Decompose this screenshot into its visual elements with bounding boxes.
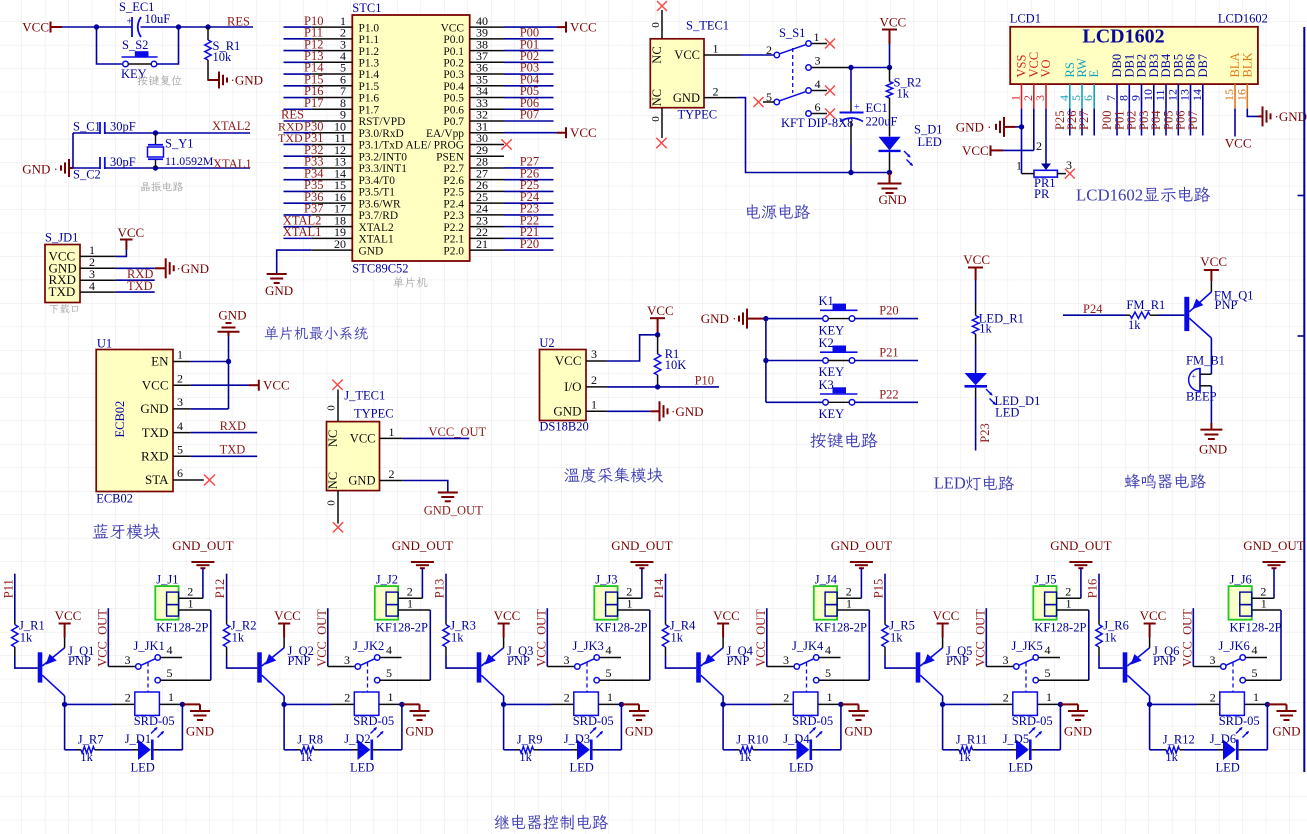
svg-text:NC: NC: [326, 472, 340, 489]
resistor J_R3: [443, 625, 449, 647]
dashed link S_S1: [792, 48, 794, 93]
label J_JK2 designator: [353, 639, 384, 653]
net label P21: [520, 225, 539, 239]
pin name NC bottom (S_TEC1): [650, 89, 664, 106]
label J_R1 value 1k: [20, 630, 33, 644]
pin name VCC (U2): [555, 353, 582, 368]
label J_R11 value 1k: [958, 750, 971, 764]
wire S_R1 to GND: [208, 60, 218, 80]
svg-text:P3.7/RD: P3.7/RD: [359, 210, 399, 222]
dashed link (J_JK5): [1025, 663, 1027, 692]
LED arrows (LED_D1): [986, 389, 996, 405]
svg-text:FM_B1: FM_B1: [1186, 354, 1225, 368]
svg-text:ECB02: ECB02: [96, 492, 133, 506]
title 单片机最小系统: [265, 326, 368, 340]
svg-text:GND_OUT: GND_OUT: [1243, 538, 1304, 553]
svg-text:LED: LED: [1216, 760, 1240, 774]
pin 33 (STC1): [470, 96, 504, 110]
svg-text:1k: 1k: [232, 630, 245, 644]
svg-text:1: 1: [1261, 596, 1267, 610]
pin name VCC (STC1): [441, 22, 464, 34]
LED arrows (J_D3): [590, 727, 603, 738]
svg-text:VCC: VCC: [22, 20, 49, 35]
power port GND (unit 2): [402, 704, 434, 738]
svg-text:SRD-05: SRD-05: [134, 714, 175, 728]
label LCD1 designator: [1010, 12, 1041, 26]
pin 2 (J_J6): [1252, 585, 1274, 599]
wire net P33: [284, 167, 312, 169]
wire LED to junction (unit 3): [593, 749, 622, 751]
net label P16: [1086, 579, 1100, 598]
pin 11 (STC1): [311, 131, 352, 145]
pin 7 (STC1): [311, 84, 352, 98]
pin name P1.1 (STC1): [359, 34, 380, 46]
wire net P20: [504, 249, 554, 251]
pin name DB6 (LCD1): [1184, 54, 1198, 78]
label FM_R1 designator: [1126, 298, 1165, 312]
wire net P25: [504, 190, 554, 192]
svg-text:3: 3: [177, 395, 183, 409]
svg-text:VO: VO: [1039, 59, 1053, 77]
pin 1 (J_J3): [618, 596, 650, 610]
label J_D2 designator: [344, 732, 370, 746]
pin 23 (STC1): [470, 213, 504, 227]
svg-text:U2: U2: [539, 336, 554, 350]
net label P24: [1083, 302, 1103, 316]
svg-text:2: 2: [125, 690, 131, 704]
pin name DB4 (LCD1): [1159, 53, 1173, 77]
node EC1 bottom junction: [848, 170, 853, 175]
switch K3: [820, 387, 858, 405]
svg-text:10uF: 10uF: [145, 12, 171, 26]
pin 19 (STC1): [311, 225, 352, 239]
wire LED_R1 to LED_D1: [975, 334, 977, 373]
svg-text:P2.5: P2.5: [443, 187, 464, 199]
power port VCC (pin31): [557, 125, 597, 140]
net label RXD (STC1): [278, 119, 304, 133]
svg-text:J_R12: J_R12: [1163, 733, 1195, 747]
annotation 下载口: [50, 304, 79, 314]
pin 14 (STC1): [311, 166, 352, 180]
svg-text:2: 2: [1210, 690, 1216, 704]
wire VCC to rail junction: [889, 44, 891, 68]
switch arm (J_JK1): [141, 659, 156, 666]
wire RS/RW/E net 0: [1069, 109, 1071, 136]
power port VCC (U1): [249, 377, 290, 392]
pin name NC top (S_TEC1): [650, 46, 664, 63]
wire P14 vertical: [665, 574, 667, 625]
connector S_TEC1 body: [650, 39, 704, 108]
label J_JK1 designator: [134, 639, 165, 653]
wire collector down (J_Q5): [942, 696, 944, 705]
pin 15 (STC1): [311, 178, 352, 192]
wire J_J6 pin1 to switch: [1280, 610, 1282, 680]
wire S_JD1 pin2 to GND: [116, 267, 155, 269]
svg-text:·GND: ·GND: [177, 261, 210, 276]
svg-text:30pF: 30pF: [110, 120, 136, 134]
power port GND (reset): [208, 72, 263, 89]
wire to relay coil (unit 3): [504, 703, 574, 705]
label S_TEC1 designator: [686, 19, 729, 33]
pin name P3.6/WR (STC1): [359, 198, 401, 210]
wire J_R12 to LED: [1180, 749, 1224, 751]
svg-text:P3.5/T1: P3.5/T1: [359, 187, 396, 199]
svg-text:P0.5: P0.5: [443, 93, 464, 105]
switch S_S2: [122, 51, 158, 67]
pin 36 (STC1): [470, 61, 504, 75]
svg-text:E: E: [1087, 70, 1101, 78]
svg-text:GND_OUT: GND_OUT: [424, 504, 483, 518]
pin name E (LCD1): [1087, 70, 1101, 78]
pin 3 (J_JK6): [1193, 653, 1226, 669]
node EC1 top junction: [848, 65, 853, 70]
label SRD-05 (unit 5): [1012, 714, 1053, 728]
pin 3 (J_JK1): [108, 653, 141, 669]
relay coil J_JK4 SRD-05: [793, 692, 818, 715]
label S_C1 designator: [73, 120, 101, 134]
svg-text:S_S2: S_S2: [122, 38, 148, 52]
svg-text:1k: 1k: [1165, 750, 1178, 764]
node I/O junction: [655, 384, 660, 389]
label K3 designator: [819, 378, 834, 392]
svg-text:J_R8: J_R8: [297, 733, 323, 747]
label LED_D1 designator: [995, 394, 1041, 408]
svg-text:J_D2: J_D2: [344, 732, 370, 746]
pin 1 stub (relay 6): [1244, 690, 1267, 705]
label S_JD1 designator: [45, 231, 78, 245]
switch S_S1 pole 5-4: [774, 88, 811, 105]
label J_D4 value LED: [789, 760, 813, 774]
svg-text:FM_R1: FM_R1: [1126, 298, 1165, 312]
svg-text:KF128-2P: KF128-2P: [1230, 620, 1282, 634]
pin 3 (U1): [173, 395, 191, 409]
pin 18 (STC1): [311, 213, 352, 227]
power port GND (crystal): [22, 159, 73, 177]
net label P00: [520, 26, 539, 40]
power port GND_OUT (J_TEC1): [424, 493, 483, 518]
svg-text:GND: GND: [1199, 442, 1227, 457]
svg-text:GND: GND: [1064, 724, 1092, 739]
svg-text:RES: RES: [227, 15, 250, 29]
pin name P2.0 (STC1): [443, 245, 464, 257]
pin 4 (J_JK4): [814, 643, 841, 660]
pin 25 (STC1): [470, 190, 504, 204]
pin 40 (STC1): [470, 14, 504, 28]
net label P05 (LCD): [1161, 111, 1175, 130]
wire U2 GND: [607, 410, 650, 412]
label EC1 value 220uF: [866, 115, 898, 129]
svg-text:2: 2: [344, 690, 350, 704]
pin name P3.1/TxD (STC1): [359, 140, 404, 152]
net label P37: [304, 202, 323, 216]
pin 3 (S_S1): [806, 54, 851, 71]
pin number 1 (S_S1): [814, 30, 820, 44]
svg-text:1: 1: [388, 690, 394, 704]
svg-text:1: 1: [713, 42, 719, 56]
svg-text:1: 1: [1016, 159, 1022, 173]
label J_Q3 designator: [507, 644, 533, 658]
svg-text:PNP: PNP: [1153, 654, 1176, 668]
wire net P36: [284, 202, 312, 204]
svg-text:P0.7: P0.7: [443, 116, 464, 128]
wire S_JD1 pin4 TXD: [116, 291, 155, 293]
pin 1 (J_TEC1): [380, 425, 403, 439]
svg-text:1: 1: [1046, 690, 1052, 704]
wire VCC to S_EC1: [62, 26, 132, 28]
label KF128-2P (unit 1): [156, 620, 208, 634]
connector S_JD1 body: [45, 245, 80, 303]
svg-text:1: 1: [827, 690, 833, 704]
svg-text:4: 4: [815, 77, 821, 91]
power port VCC (J_Q1): [55, 608, 82, 637]
svg-text:J_J4: J_J4: [815, 572, 838, 586]
pin name P0.3 (STC1): [443, 69, 464, 81]
svg-text:P3.4/T0: P3.4/T0: [359, 175, 396, 187]
dashed link (J_JK2): [367, 663, 369, 692]
svg-text:1: 1: [591, 398, 597, 412]
pin name P1.6 (STC1): [359, 93, 380, 105]
svg-text:TXD: TXD: [127, 279, 153, 293]
node reset-A junction: [94, 24, 99, 29]
wire EN to GND net: [191, 361, 229, 363]
svg-text:P2.3: P2.3: [443, 210, 464, 222]
wire GND_OUT to pin2 (unit 2): [421, 568, 423, 598]
connector J_J2 body: [375, 586, 398, 620]
svg-text:BLK: BLK: [1240, 53, 1254, 78]
switch K2: [820, 346, 858, 364]
power port VCC (reset circuit): [22, 20, 62, 35]
svg-text:4: 4: [386, 643, 392, 657]
pin name DB5 (LCD1): [1171, 54, 1185, 78]
title 按键电路: [810, 432, 877, 448]
svg-text:4: 4: [825, 643, 831, 657]
label J_J4 designator: [815, 572, 838, 586]
net label P22: [879, 387, 898, 401]
connector J_J3 body: [594, 586, 617, 620]
pin 2 (STC1): [311, 26, 352, 40]
power port GND (unit 3): [621, 704, 653, 738]
svg-text:4: 4: [1252, 643, 1258, 657]
label SRD-05 (unit 3): [573, 714, 614, 728]
label J_J1 designator: [156, 572, 178, 586]
wire K2 left: [766, 360, 822, 362]
svg-text:P2.7: P2.7: [443, 163, 464, 175]
relay coil J_JK1 SRD-05: [135, 692, 160, 715]
svg-text:5: 5: [167, 666, 173, 680]
wire net XTAL1 (STC1): [284, 237, 312, 239]
wire net P34: [284, 179, 312, 181]
svg-text:J_D4: J_D4: [783, 732, 810, 746]
pin 1 (U2): [586, 398, 607, 412]
wire VCC to emitter (J_Q1): [64, 638, 66, 648]
svg-text:K2: K2: [819, 336, 834, 350]
title LED灯电路: [934, 474, 1014, 493]
wire VCC pin31: [504, 132, 557, 134]
label S_S2 designator: [122, 38, 148, 52]
LED arrows (S_D1): [904, 151, 913, 166]
pin 4 (J_JK5): [1033, 643, 1060, 660]
label J_D1 designator: [125, 732, 151, 746]
pin 21 (STC1): [470, 237, 504, 251]
net label P12: [304, 37, 323, 51]
svg-text:2: 2: [389, 467, 395, 481]
svg-text:TYPEC: TYPEC: [354, 406, 394, 420]
resistor J_R5: [882, 625, 888, 647]
wire P13 vertical: [445, 574, 447, 625]
pin name P3.4/T0 (STC1): [359, 175, 396, 187]
wire K3 right: [855, 401, 918, 403]
net label VCC_OUT (unit 4): [754, 609, 768, 667]
svg-text:5: 5: [177, 443, 183, 457]
label FM_Q1 designator: [1214, 288, 1254, 302]
svg-text:5: 5: [1252, 666, 1258, 680]
svg-text:PNP: PNP: [68, 654, 91, 668]
wire pin2 to bottom rail: [738, 98, 851, 173]
transistor J_Q3 PNP: [477, 648, 504, 696]
node keys junction 2: [763, 358, 768, 363]
pin name GND (U1): [140, 401, 168, 416]
power port GND_OUT (unit 6): [1243, 538, 1304, 568]
wire collector down (J_Q3): [503, 696, 505, 705]
wire net P07: [504, 120, 554, 122]
net label P14: [304, 61, 324, 75]
net label P04 (LCD): [1149, 110, 1163, 130]
annotation 晶振电路: [141, 182, 183, 192]
label STC1 designator: [352, 1, 381, 15]
pin name NC top (J_TEC1): [326, 430, 340, 447]
svg-text:NC: NC: [650, 89, 664, 106]
node collector junction (unit 6): [1147, 702, 1152, 707]
net label P25: [520, 178, 539, 192]
power port GND (BLK): [1258, 106, 1307, 126]
net label P01 (LCD): [1112, 111, 1126, 130]
power port VCC (J_Q6): [1140, 608, 1167, 637]
net label P02 (LCD): [1125, 111, 1139, 130]
connector J_J5 body: [1033, 586, 1056, 620]
svg-text:J_JK6: J_JK6: [1219, 639, 1250, 653]
transistor J_Q2 PNP: [257, 648, 284, 696]
resistor FM_R1: [1126, 312, 1150, 318]
pin 3 (J_JK4): [767, 653, 800, 669]
wire junction down right (unit 6): [1266, 704, 1268, 749]
label J_D2 value LED: [350, 760, 374, 774]
wire K1 right: [855, 318, 918, 320]
svg-text:LED: LED: [570, 760, 594, 774]
power port GND (unit 6): [1267, 704, 1300, 738]
wire collector down (J_Q2): [283, 696, 285, 705]
resistor J_R7: [81, 747, 95, 753]
label KF128-2P (unit 4): [815, 620, 867, 634]
svg-text:GND: GND: [218, 308, 246, 323]
svg-text:P13: P13: [433, 579, 447, 598]
wire GND to S_C1: [73, 132, 100, 134]
wire net P00: [504, 38, 554, 40]
svg-text:VCC: VCC: [555, 353, 582, 368]
power port VCC (LED circuit): [963, 252, 990, 280]
diode J_D4 LED: [797, 740, 811, 761]
svg-text:1: 1: [607, 690, 613, 704]
label K2 designator: [819, 336, 834, 350]
pin 5 stub and no-ERC (S_S1): [754, 97, 775, 107]
svg-text:KF128-2P: KF128-2P: [595, 620, 647, 634]
svg-text:NC: NC: [650, 46, 664, 63]
wire R1 bottom stub: [657, 375, 659, 387]
svg-text:P21: P21: [879, 346, 898, 360]
net label P33: [304, 155, 323, 169]
wire VCC_OUT vertical (unit 1): [107, 608, 109, 666]
power port GND (power circuit): [878, 173, 907, 208]
label R1 value 10K: [665, 358, 687, 372]
pin name ALE/ PROG (STC1): [405, 140, 464, 152]
svg-text:1: 1: [627, 596, 633, 610]
label SRD-05 (unit 6): [1219, 714, 1260, 728]
wire K2 right: [855, 360, 918, 362]
pin 32 (STC1): [470, 108, 504, 122]
net label TXD (S_JD1): [127, 279, 153, 293]
svg-text:2: 2: [713, 84, 719, 98]
svg-text:1k: 1k: [20, 630, 33, 644]
node collector junction (unit 4): [720, 702, 725, 707]
svg-text:KF128-2P: KF128-2P: [376, 620, 428, 634]
wire J_J3 pin1 to switch: [649, 610, 651, 680]
wire LED to junction (unit 4): [812, 749, 841, 751]
net label P20: [879, 304, 898, 318]
wire BLA to VCC: [1234, 109, 1236, 137]
label STC1 part STC89C52: [352, 262, 408, 276]
power port GND (unit 4): [841, 704, 873, 738]
wire U1 pin5 RXD: [191, 455, 258, 457]
svg-text:VCC: VCC: [713, 608, 740, 623]
label J_J3 designator: [595, 572, 617, 586]
wire S_JD1 pin3 RXD: [116, 279, 155, 281]
label LED_R1 value 1k: [979, 322, 992, 336]
no-ERC marker bottom (J_TEC1): [333, 522, 343, 532]
dashed link (J_JK1): [147, 663, 149, 692]
svg-text:J_J2: J_J2: [376, 572, 398, 586]
svg-text:VCC: VCC: [933, 608, 960, 623]
pin name EN (U1): [151, 354, 169, 369]
svg-text:LCD1: LCD1: [1010, 12, 1041, 26]
pin 2 (J_J5): [1057, 585, 1081, 599]
svg-text:1: 1: [1066, 596, 1072, 610]
svg-text:DS18B20: DS18B20: [539, 420, 588, 434]
svg-text:VCC: VCC: [570, 19, 597, 34]
pin 16 (STC1): [311, 190, 352, 204]
svg-text:VCC: VCC: [962, 143, 989, 158]
pin 27 (STC1): [470, 166, 504, 180]
svg-text:GND: GND: [625, 724, 653, 739]
IC STC1 body: [352, 15, 469, 261]
pin 2 (J_TEC1): [380, 467, 403, 481]
wire net P14: [284, 73, 312, 75]
wire VCC pin2 down: [1033, 109, 1035, 151]
wire J_J4 pin1 to switch: [868, 610, 870, 680]
label LED_R1 designator: [979, 312, 1024, 326]
pin 12 (STC1): [311, 143, 352, 157]
power port GND (U2): [650, 401, 703, 421]
power port VCC (U2): [647, 303, 674, 335]
label J_Q6 type PNP: [1153, 654, 1176, 668]
svg-text:GND ·: GND ·: [956, 120, 992, 135]
net label P23: [978, 423, 992, 442]
pin 5 (J_JK5): [1033, 666, 1089, 683]
label J_R10 value 1k: [739, 750, 752, 764]
pin name VCC (LCD1): [1027, 52, 1041, 78]
svg-text:P15: P15: [872, 579, 886, 598]
wire collector to buzzer: [1210, 338, 1212, 374]
label J_R3 designator: [450, 618, 476, 632]
wire junction down left (unit 4): [722, 704, 724, 749]
